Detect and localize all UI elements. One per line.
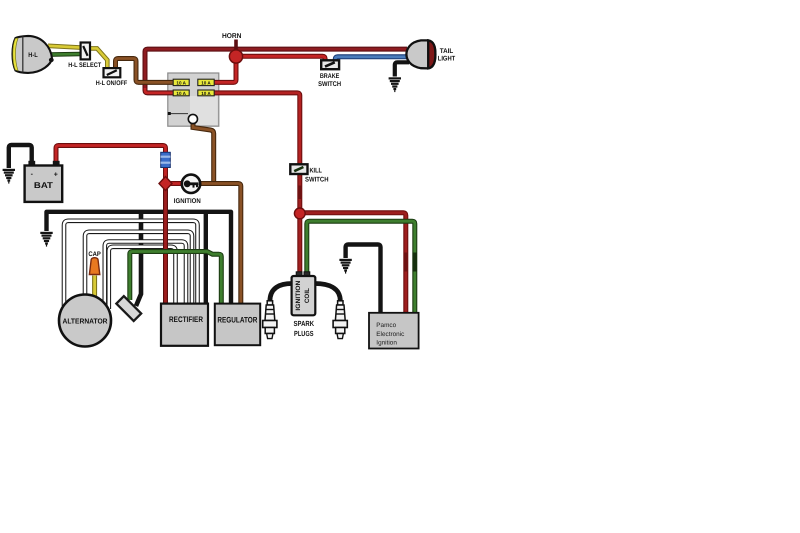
spark plug wire left bbox=[270, 284, 292, 302]
ignition coil bbox=[292, 272, 316, 316]
wire: dark red battery feed down to rectifier bbox=[163, 168, 168, 304]
svg-text:Electronic: Electronic bbox=[376, 331, 405, 338]
svg-text:COIL: COIL bbox=[304, 288, 311, 303]
connector: points plug bbox=[116, 296, 141, 321]
wire: black drop from bus to rectifier bbox=[204, 212, 208, 304]
ground: Pamco bbox=[339, 260, 351, 273]
ground: battery negative bbox=[3, 170, 15, 183]
svg-text:Pamco: Pamco bbox=[376, 322, 396, 329]
wire: black points wire from bus to connector bbox=[136, 212, 141, 306]
switch: KILL SWITCH bbox=[290, 164, 328, 183]
svg-text:KILL: KILL bbox=[310, 167, 323, 174]
wire: brown on/off switch to fuse box bbox=[116, 59, 175, 83]
fuse F2 10A bbox=[198, 79, 214, 85]
svg-text:10 A: 10 A bbox=[176, 91, 186, 96]
wire: red coil node to ignition coil bbox=[297, 213, 302, 274]
svg-text:CAP: CAP bbox=[88, 251, 101, 258]
fuse: blue inline main fuse bbox=[161, 152, 171, 167]
ground: tail light bbox=[389, 78, 401, 91]
spark plug wire right bbox=[315, 284, 340, 302]
svg-text:ALTERNATOR: ALTERNATOR bbox=[63, 317, 109, 326]
svg-text:REGULATOR: REGULATOR bbox=[217, 315, 257, 324]
node: fuse box feed terminal bbox=[188, 114, 197, 123]
switch: ignition key bbox=[174, 175, 201, 205]
alternator bbox=[59, 295, 111, 347]
spark plug right bbox=[333, 301, 347, 339]
svg-text:BAT: BAT bbox=[34, 180, 54, 190]
svg-text:LIGHT: LIGHT bbox=[438, 55, 456, 62]
wire: red brake feed from horn node to brake switch bbox=[236, 56, 325, 61]
svg-text:SWITCH: SWITCH bbox=[305, 177, 329, 184]
wire: maroon main bus headlamp corner to tail light bbox=[145, 49, 407, 93]
wire: green headlamp wire to selector bbox=[49, 52, 81, 57]
rectifier bbox=[161, 304, 208, 346]
fuse F4 10A bbox=[198, 90, 214, 96]
wire: white harness loop1 alternator to rectifier bbox=[64, 221, 198, 306]
wire: black ground bus horizontal bbox=[47, 212, 232, 304]
wire: brown ignition feed from fusebox to ignition switch and regulator bbox=[193, 122, 241, 304]
svg-text:IGNITION: IGNITION bbox=[295, 280, 302, 310]
svg-text:TAIL: TAIL bbox=[440, 48, 454, 55]
node: coil junction bbox=[294, 208, 305, 219]
wire: red kill switch to coil node bbox=[298, 175, 302, 210]
wire: red kill switch feed from fuse box bbox=[213, 93, 300, 164]
fuse box bbox=[168, 73, 219, 126]
wire: white harness loop2 bbox=[85, 232, 192, 304]
node: ignition feed diamond junction bbox=[159, 177, 172, 191]
wire: black tail light ground lead bbox=[395, 62, 409, 76]
wire: yellow selector to on/off switch bbox=[90, 48, 107, 68]
tail light bbox=[406, 40, 456, 68]
svg-text:10 A: 10 A bbox=[176, 80, 186, 85]
svg-text:RECTIFIER: RECTIFIER bbox=[169, 315, 203, 324]
horn node bbox=[222, 33, 243, 63]
svg-text:H-L: H-L bbox=[28, 52, 38, 59]
svg-text:HORN: HORN bbox=[222, 33, 242, 40]
svg-text:IGNITION: IGNITION bbox=[174, 198, 201, 205]
wire: yellow headlamp wire to selector bbox=[48, 46, 81, 48]
svg-text:Ignition: Ignition bbox=[376, 339, 397, 346]
capacitor CAP bbox=[88, 251, 101, 297]
svg-text:10 A: 10 A bbox=[201, 91, 211, 96]
ground: bus left end bbox=[40, 233, 52, 246]
svg-text:H-L ON/OFF: H-L ON/OFF bbox=[96, 80, 128, 87]
svg-text:H-L SELECT: H-L SELECT bbox=[68, 62, 101, 69]
wire: green harness wire connector to regulator bbox=[130, 252, 222, 305]
svg-text:SPARK: SPARK bbox=[294, 319, 315, 328]
wire: green coil wire to Pamco ignition bbox=[307, 221, 417, 313]
fuse F3 10A bbox=[173, 90, 189, 96]
switch: H-L ON/OFF bbox=[96, 68, 128, 87]
wire: red battery positive to ignition node bbox=[56, 146, 182, 184]
wire: red coil node to Pamco ignition bbox=[302, 213, 408, 313]
battery BAT bbox=[25, 161, 63, 202]
wire: white harness loop4 bbox=[109, 247, 176, 309]
Pamco electronic ignition box bbox=[369, 313, 419, 349]
wire: white harness loop3 bbox=[105, 242, 186, 305]
spark plug left bbox=[263, 301, 277, 339]
wire: black battery negative lead bbox=[9, 145, 32, 168]
wire: red horn branch from fuse to horn node bbox=[213, 54, 236, 82]
svg-text:+: + bbox=[54, 172, 58, 179]
regulator bbox=[215, 304, 260, 346]
headlight H-L bbox=[13, 36, 54, 73]
svg-text:SWITCH: SWITCH bbox=[318, 81, 341, 88]
svg-text:BRAKE: BRAKE bbox=[320, 73, 340, 80]
label: spark plugs bbox=[294, 319, 315, 338]
svg-text:10 A: 10 A bbox=[201, 80, 211, 85]
svg-text:PLUGS: PLUGS bbox=[294, 329, 314, 338]
wire: blue brake switch to tail light bbox=[335, 57, 408, 62]
switch: H-L SELECT bbox=[68, 43, 101, 69]
wire: black Pamco ground lead bbox=[346, 245, 381, 314]
fuse F1 10A bbox=[173, 79, 189, 85]
switch: BRAKE SWITCH bbox=[318, 60, 341, 88]
